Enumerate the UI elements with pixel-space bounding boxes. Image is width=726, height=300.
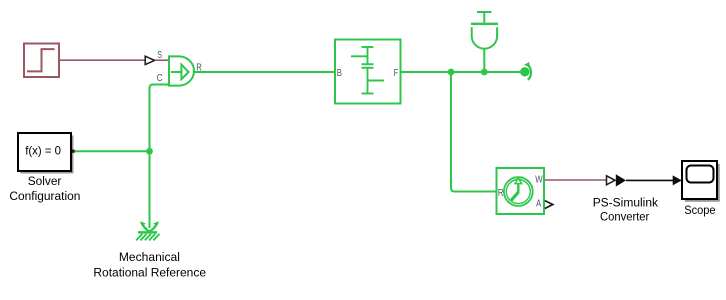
scope block body — [682, 161, 717, 199]
converter inner arrow — [171, 65, 189, 80]
mechanical rotational reference arrow — [141, 222, 158, 231]
svg-text:f(x) = 0: f(x) = 0 — [25, 143, 61, 157]
scope screen — [687, 166, 714, 183]
shaft wire F to inertia — [401, 71, 521, 73]
rotational damper cup — [472, 27, 497, 48]
rotational damper piston tee — [477, 11, 492, 13]
solver configuration port square — [72, 150, 75, 153]
svg-text:A: A — [536, 198, 541, 209]
wire solver to vertical line — [75, 150, 150, 152]
rotational damper piston rod — [483, 12, 485, 23]
mechanical rotational reference arrow barbs — [140, 221, 159, 226]
wire converter C down to ground — [150, 85, 170, 229]
svg-text:Solver: Solver — [28, 174, 62, 188]
mechanical rotational reference hatches — [136, 234, 159, 240]
svg-text:W: W — [535, 175, 543, 186]
solver configuration block shadow — [21, 136, 74, 174]
arrowhead at scope input — [673, 175, 682, 185]
gear box icon upper shaft — [351, 47, 384, 94]
simulink-ps converter body U1 — [169, 56, 194, 85]
junction dot sensor branch — [448, 69, 455, 76]
sensor needle hand — [511, 192, 518, 200]
branch wire to sensor R port — [451, 72, 496, 192]
svg-text:Scope: Scope — [684, 203, 716, 217]
wire segment into S port — [156, 59, 170, 61]
open arrowhead at converter S input — [145, 56, 154, 64]
solver configuration block — [18, 133, 71, 171]
junction dot solver branch — [146, 148, 153, 155]
scope block shadow — [685, 164, 720, 202]
svg-text:Converter: Converter — [600, 209, 649, 223]
open arrowhead into ps-simulink converter — [607, 176, 616, 185]
svg-text:Rotational Reference: Rotational Reference — [93, 266, 206, 280]
sensor needle tangent line — [513, 177, 523, 179]
signal wire to scope — [626, 179, 674, 181]
rotational damper stem wire — [483, 48, 485, 72]
svg-text:R: R — [498, 188, 504, 199]
svg-text:Configuration: Configuration — [9, 189, 80, 203]
svg-text:PS-Simulink: PS-Simulink — [593, 196, 659, 210]
svg-text:B: B — [337, 68, 342, 79]
wire converter R to gear box B — [194, 71, 335, 73]
sensor gauge outer circle — [504, 177, 533, 206]
inertia block dot — [520, 67, 529, 76]
svg-text:Mechanical: Mechanical — [119, 250, 180, 264]
svg-text:C: C — [157, 73, 163, 84]
sensor gauge inner circle — [506, 180, 530, 204]
ps-simulink converter block (collapsed icon) — [616, 174, 626, 186]
inertia arc arrowhead — [524, 62, 530, 67]
mechanical rotational reference ground bar — [138, 231, 157, 234]
sensor needle up arrow — [515, 178, 522, 192]
svg-text:S: S — [157, 50, 162, 61]
signal wire Step to converter — [59, 59, 145, 61]
inertia rotation arc — [527, 65, 531, 80]
step source block Step — [24, 44, 59, 78]
physical signal wire W to converter — [545, 179, 607, 181]
junction dot damper branch — [481, 69, 488, 76]
svg-text:F: F — [394, 68, 399, 79]
gear box block body — [335, 40, 401, 104]
rotational damper lid — [471, 23, 498, 25]
ideal rotational motion sensor body — [497, 168, 545, 214]
unconnected A port arrow — [545, 201, 553, 209]
